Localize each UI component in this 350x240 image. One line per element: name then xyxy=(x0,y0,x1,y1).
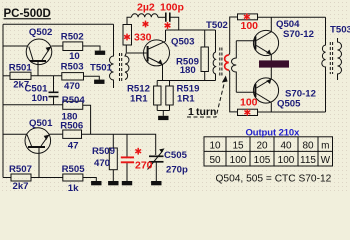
wire red winding top to R100 node xyxy=(229,17,238,55)
wire cap down to collector rail xyxy=(170,17,179,30)
svg-text:R505: R505 xyxy=(62,164,86,175)
trimmer C505 xyxy=(149,155,164,157)
svg-text:Q501: Q501 xyxy=(29,118,53,129)
resistor R503 xyxy=(62,73,84,80)
svg-text:1k: 1k xyxy=(68,183,79,192)
wire coil to cap xyxy=(158,16,165,18)
svg-text:T502: T502 xyxy=(206,20,228,31)
wire emitter line R506 to C505 xyxy=(82,134,156,155)
ground terminal T501 bottom xyxy=(94,80,104,84)
svg-text:Q505: Q505 xyxy=(277,99,301,110)
wire coil to 330 top xyxy=(127,17,131,24)
wire rail to R507 xyxy=(3,177,11,179)
wire R503 to terminal 2 xyxy=(84,76,100,79)
resistor R512 xyxy=(156,81,158,87)
wire R504 down to emitter wire xyxy=(83,105,91,134)
transistor Q505 xyxy=(253,78,278,103)
wire secondary to Q504 base xyxy=(236,40,255,42)
wire R507 to R505 xyxy=(31,177,63,179)
wire R505 to ground xyxy=(83,178,96,182)
transformer T503 primary xyxy=(322,17,326,112)
capacitor 270 red plates xyxy=(121,156,134,158)
wire Q502 emitter to R502 xyxy=(51,45,63,47)
star 330 xyxy=(124,34,130,41)
svg-text:40: 40 xyxy=(280,141,292,152)
svg-text:470: 470 xyxy=(64,81,80,92)
svg-text:2µ2: 2µ2 xyxy=(137,2,155,14)
wire red winding bottom to lower 100 xyxy=(229,70,238,112)
svg-text:100: 100 xyxy=(278,155,295,166)
svg-text:47: 47 xyxy=(68,141,79,152)
resistor 100 bottom xyxy=(238,109,258,115)
svg-text:R507: R507 xyxy=(9,164,32,175)
svg-text:10: 10 xyxy=(209,141,221,152)
star 100 top xyxy=(244,13,250,20)
wire Q503 emitter down xyxy=(162,65,164,81)
transistor Q503 xyxy=(144,40,170,66)
svg-text:270: 270 xyxy=(135,160,153,172)
svg-text:330: 330 xyxy=(134,32,152,44)
svg-text:W: W xyxy=(321,155,331,166)
capacitor C501 xyxy=(53,76,55,92)
wire secondary to Q505 base xyxy=(236,91,255,93)
ground R512 R519 xyxy=(158,116,168,120)
transistor Q504 xyxy=(253,30,278,55)
svg-text:1: 1 xyxy=(188,106,194,118)
dashed arrow 1 turn xyxy=(187,80,225,117)
maroon ferrite bar xyxy=(259,60,289,67)
resistor 100 top xyxy=(238,14,258,20)
svg-text:T503: T503 xyxy=(330,25,350,36)
wire Q504 collector xyxy=(270,17,272,31)
T501 core xyxy=(120,53,122,82)
svg-text:470: 470 xyxy=(94,158,110,169)
wire Q501 collector to rail xyxy=(3,133,27,135)
resistor R501 xyxy=(10,72,31,79)
svg-text:270p: 270p xyxy=(166,165,188,176)
svg-text:R501: R501 xyxy=(9,62,33,73)
svg-text:R509: R509 xyxy=(92,146,115,157)
svg-text:R506: R506 xyxy=(60,121,83,132)
wire emitter node xyxy=(157,80,215,82)
wire R501 to R503 base node xyxy=(31,75,62,77)
svg-text:PC-500D: PC-500D xyxy=(4,8,51,20)
T503 core xyxy=(330,42,332,74)
wire Q504 emitter to Q505 xyxy=(270,55,272,79)
ground C505 xyxy=(151,181,161,185)
svg-text:m: m xyxy=(321,141,329,152)
resistor R505 xyxy=(63,174,83,181)
wire left rail xyxy=(2,24,4,177)
svg-text:Output 210x: Output 210x xyxy=(246,127,301,138)
svg-text:R504: R504 xyxy=(62,95,86,106)
svg-text:115: 115 xyxy=(300,155,316,166)
svg-text:180: 180 xyxy=(180,65,196,76)
svg-text:80: 80 xyxy=(302,141,314,152)
wire rail to R501 xyxy=(3,75,10,77)
svg-text:100p: 100p xyxy=(160,2,184,14)
wire Q501 emitter to R506 xyxy=(49,133,62,135)
svg-text:15: 15 xyxy=(232,141,244,152)
table output xyxy=(204,137,333,166)
wire Q503 collector up to rail xyxy=(165,30,167,41)
svg-text:Q504, 505 = CTC S70-12: Q504, 505 = CTC S70-12 xyxy=(216,173,332,184)
star 270 xyxy=(135,148,141,155)
svg-text:T501: T501 xyxy=(90,62,113,73)
svg-text:S70-12: S70-12 xyxy=(283,29,314,40)
wire R502 to terminal xyxy=(83,46,100,51)
wire rail to R504 xyxy=(3,104,63,106)
transistor Q501 xyxy=(25,128,51,154)
svg-text:C505: C505 xyxy=(164,150,188,161)
wire Q501 base stub xyxy=(38,148,40,178)
wire Q505 collector down xyxy=(270,103,272,112)
svg-text:1R1: 1R1 xyxy=(177,94,195,105)
svg-text:2k7: 2k7 xyxy=(13,181,29,192)
star 100 bottom xyxy=(244,109,250,116)
svg-text:1R1: 1R1 xyxy=(130,94,148,105)
svg-text:R502: R502 xyxy=(61,31,84,42)
resistor R509 180 vertical xyxy=(204,30,206,47)
resistor 330 vertical xyxy=(123,25,132,46)
star cap 100p xyxy=(165,22,171,29)
svg-text:100: 100 xyxy=(230,155,247,166)
T503 secondary xyxy=(338,38,342,80)
ground R505 xyxy=(91,181,101,185)
T502 secondary to bases xyxy=(232,41,237,93)
star coil xyxy=(143,21,149,28)
svg-text:10n: 10n xyxy=(32,93,49,104)
transistor Q502 xyxy=(26,39,52,65)
wire Q502 base stub xyxy=(37,62,39,76)
transformer T501 left winding xyxy=(110,24,114,88)
svg-text:50: 50 xyxy=(209,155,221,166)
wire Q503 base from 330 xyxy=(127,52,147,54)
ground R509 470 xyxy=(108,181,118,185)
wire collector rail xyxy=(166,29,216,31)
resistor R507 xyxy=(11,174,31,181)
wire top rail to T503 xyxy=(258,16,326,18)
capacitor 100p xyxy=(165,13,167,22)
T502 red winding 1 turn xyxy=(225,55,229,70)
svg-text:Q502: Q502 xyxy=(29,27,52,38)
T502 core xyxy=(220,48,222,78)
ground cap 270 xyxy=(122,181,132,185)
inductor 2u2 xyxy=(132,14,158,18)
svg-text:R503: R503 xyxy=(61,62,84,73)
resistor R504 xyxy=(63,101,83,109)
resistor R502 xyxy=(63,42,83,51)
svg-text:100: 100 xyxy=(240,96,258,108)
svg-text:Q503: Q503 xyxy=(171,37,194,48)
resistor R506 xyxy=(63,130,82,138)
wire bottom to T503 xyxy=(258,111,326,113)
wire Q502 collector to rail xyxy=(3,45,28,47)
resistor R519 xyxy=(169,81,171,87)
svg-text:105: 105 xyxy=(254,155,271,166)
wire top rail left block xyxy=(3,23,114,25)
ground terminal T501 top xyxy=(95,51,105,55)
T501 right winding xyxy=(125,45,129,80)
capacitor 270 red stubs xyxy=(126,134,128,156)
svg-text:100: 100 xyxy=(241,20,259,32)
resistor R509 470 vertical xyxy=(112,134,114,148)
wire join R512 R519 to ground xyxy=(157,110,169,112)
transformer T502 primary xyxy=(213,30,215,81)
svg-text:20: 20 xyxy=(256,141,268,152)
svg-text:turn: turn xyxy=(196,106,216,118)
